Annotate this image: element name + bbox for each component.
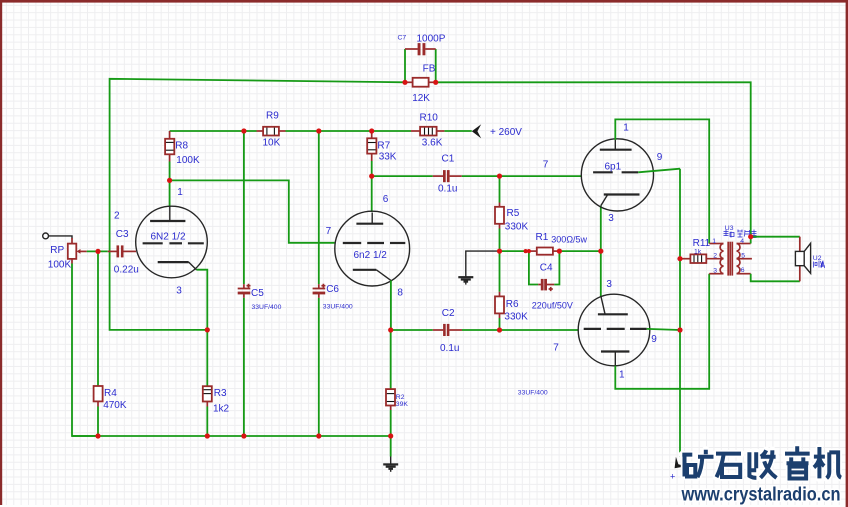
svg-text:C6: C6	[326, 284, 339, 295]
capacitor C4 loop wires	[529, 251, 560, 284]
junction R5/R6/ground node	[497, 249, 502, 254]
resistor R10 (3.6K)	[411, 127, 444, 136]
svg-text:6: 6	[383, 194, 389, 205]
resistor R9 (10K)	[257, 127, 286, 136]
capacitor C5 (33UF/400 electrolytic)	[238, 284, 251, 298]
svg-text:7: 7	[326, 226, 332, 237]
resistor R11 (1k)	[680, 254, 724, 263]
wire: R7 bottom to plate node	[371, 161, 373, 176]
wire: C5 column	[243, 131, 245, 436]
input terminal	[43, 233, 72, 239]
wire: node to C1	[372, 175, 433, 177]
svg-text:1: 1	[623, 122, 629, 133]
tube V2 6n2 1/2 (second triode, cathodyne)	[335, 211, 410, 286]
svg-text:0.1u: 0.1u	[440, 343, 459, 354]
wire: V2 cathode down to C2 node	[390, 280, 392, 330]
transformer U3 primary coil	[709, 244, 723, 274]
transformer U3 core	[728, 242, 732, 276]
junction screen/R11	[677, 256, 682, 261]
speaker U2	[795, 243, 810, 273]
tube V1 6N2 1/2 (first triode)	[136, 206, 208, 278]
svg-text:9: 9	[657, 152, 663, 163]
svg-text:R6: R6	[506, 299, 519, 310]
svg-text:33UF/400: 33UF/400	[252, 304, 282, 311]
svg-text:8: 8	[397, 287, 403, 298]
svg-text:39K: 39K	[396, 401, 409, 408]
resistor FB (12K)	[405, 78, 436, 87]
junction FB left	[402, 80, 407, 85]
junction rail/C6	[316, 433, 321, 438]
junction cathode column	[598, 249, 603, 254]
wire: R2 bottom to ground rail	[390, 410, 392, 436]
junction FB right	[433, 80, 438, 85]
svg-text:C3: C3	[116, 229, 129, 240]
svg-text:3: 3	[608, 213, 614, 224]
svg-text:+ 260V: + 260V	[490, 127, 522, 138]
svg-text:3: 3	[713, 267, 717, 274]
wire: V4 anode to transformer pin 3	[615, 274, 709, 389]
svg-text:C2: C2	[442, 308, 455, 319]
wire: junction to speaker top	[751, 236, 800, 238]
wire: pin 6 to speaker bottom	[751, 274, 800, 282]
svg-text:100K: 100K	[48, 259, 72, 270]
svg-text:1: 1	[177, 187, 183, 198]
svg-text:300Ω/5w: 300Ω/5w	[551, 235, 587, 245]
wire: node to V2 grid (pin 7)	[170, 180, 335, 242]
svg-text:C5: C5	[251, 288, 264, 299]
tube V3 6p1 (upper output)	[581, 139, 653, 211]
svg-text:U2: U2	[813, 255, 822, 262]
capacitor C3 (0.22u)	[108, 245, 136, 257]
junction rail/R7	[369, 128, 374, 133]
svg-text:33UF/400: 33UF/400	[518, 390, 548, 397]
junction R8/plate node	[167, 178, 172, 183]
capacitor C7 loop wires	[405, 49, 436, 82]
svg-text:R2: R2	[396, 394, 405, 401]
wire: C1 to V3 grid pin 7	[462, 175, 582, 177]
wire: node down to V2 pin 6	[371, 176, 373, 212]
resistor R2 (39K)	[386, 389, 395, 410]
svg-text:0.22u: 0.22u	[114, 264, 139, 275]
svg-text:7: 7	[553, 343, 559, 354]
svg-text:R3: R3	[214, 388, 227, 399]
junction R7/V2 plate/C1	[369, 174, 374, 179]
tube V4 6p1 (lower output)	[578, 294, 650, 366]
svg-text:C4: C4	[540, 262, 553, 273]
svg-text:C7: C7	[398, 35, 407, 42]
capacitor C2 (0.1u)	[391, 324, 462, 336]
wire: ground rail	[72, 435, 391, 437]
svg-text:330K: 330K	[505, 221, 529, 232]
junction rail/C6	[316, 128, 321, 133]
capacitor C4 (220uf/50V)	[538, 279, 554, 291]
wire: FB node to output transformer secondary (top right rail)	[436, 82, 751, 236]
svg-text:5: 5	[741, 253, 745, 260]
wire: V1 cathode to cathode node	[196, 270, 207, 330]
label speaker (CJK)	[814, 261, 826, 269]
speaker U2 leads	[799, 237, 801, 282]
svg-text:FB: FB	[423, 64, 436, 75]
watermark big CJK text	[682, 446, 841, 478]
svg-text:R9: R9	[266, 110, 279, 121]
resistor R4 (470K)	[94, 386, 103, 407]
svg-text:R4: R4	[104, 388, 117, 399]
junction R1 left b	[527, 249, 531, 253]
wire: bias node to R1	[500, 250, 530, 252]
power port +260V arrow	[472, 124, 481, 138]
svg-text:0.1u: 0.1u	[438, 183, 457, 194]
transformer U3 secondary coil	[737, 244, 752, 274]
power port arrow (screen supply)	[675, 457, 686, 469]
potentiometer RP (100K)	[68, 238, 87, 264]
ground symbol (main)	[383, 436, 398, 471]
resistor R1 (300R/5w)	[529, 248, 559, 255]
wire: V3 anode pin1 to transformer pin 1	[615, 119, 709, 243]
junction rail/R2	[388, 433, 393, 438]
svg-text:6N2 1/2: 6N2 1/2	[151, 232, 186, 243]
resistor R6 (330K)	[495, 251, 504, 330]
wire: R8 bottom to grid node	[169, 162, 171, 181]
junction screen/V4 pin9	[677, 327, 682, 332]
svg-text:100K: 100K	[176, 155, 200, 166]
svg-text:3: 3	[606, 279, 612, 290]
junction rail/R3	[205, 433, 210, 438]
svg-text:6n2 1/2: 6n2 1/2	[354, 250, 388, 261]
junction wiper node	[95, 249, 100, 254]
resistor R8 (100K)	[165, 131, 174, 162]
junction V2 cathode/C2/R2	[388, 327, 393, 332]
svg-text:6p1: 6p1	[605, 161, 622, 172]
capacitor C1 (0.1u)	[433, 170, 462, 182]
svg-text:220uf/50V: 220uf/50V	[532, 300, 573, 310]
wire: cathode node down to R3	[206, 330, 208, 386]
capacitor C6 (33UF/400 electrolytic)	[313, 284, 326, 298]
svg-text:1k: 1k	[694, 248, 702, 255]
svg-text:R10: R10	[420, 113, 439, 124]
junction V1 cathode node	[205, 327, 210, 332]
svg-text:2: 2	[114, 210, 120, 221]
svg-text:33K: 33K	[379, 151, 397, 162]
svg-text:1k2: 1k2	[213, 404, 230, 415]
wire: wiper node down to R4	[97, 251, 99, 386]
junction rail/R4	[95, 433, 100, 438]
svg-text:RP: RP	[50, 245, 64, 256]
wire: RP bottom to ground rail	[72, 264, 98, 437]
junction rail/C5	[241, 433, 246, 438]
wire: V3 screen pin 9 to screen column	[638, 169, 680, 173]
svg-text:12K: 12K	[412, 93, 430, 104]
wire: screen grid column	[679, 169, 681, 457]
wire: V4 screen pin 9 to screen column	[647, 329, 680, 330]
label output transformer (CJK)	[724, 230, 757, 239]
svg-text:6: 6	[741, 267, 745, 274]
wire: pin 4 to junction	[750, 237, 752, 244]
junction R1 right	[557, 249, 562, 254]
wire: B+ rail	[170, 130, 472, 132]
svg-text:3.6K: 3.6K	[422, 138, 443, 149]
svg-text:R1: R1	[536, 232, 549, 243]
wire: cathode column (V3 cathode to V4 cathode)	[600, 206, 602, 297]
wire: C6 column	[318, 131, 320, 436]
wire: R1 right to cathode column	[559, 250, 600, 252]
svg-text:330K: 330K	[504, 312, 528, 323]
junction rail/C5	[241, 128, 246, 133]
svg-text:33UF/400: 33UF/400	[323, 304, 353, 311]
svg-text:R8: R8	[175, 141, 188, 152]
svg-text:+: +	[670, 472, 675, 482]
svg-text:www.crystalradio.cn: www.crystalradio.cn	[681, 484, 841, 506]
svg-text:4: 4	[740, 238, 744, 245]
wire: feedback top rail from FB node to first stage cathode column	[110, 79, 405, 330]
resistor R3 (1k2)	[203, 386, 212, 406]
svg-text:3: 3	[176, 286, 182, 297]
resistor R7 (33K)	[367, 131, 376, 161]
junction C2 wire / R6	[497, 327, 502, 332]
wire: node down to R2	[390, 330, 392, 389]
junction C1 wire / R5	[497, 174, 502, 179]
svg-text:7: 7	[543, 159, 549, 170]
junction R1 left a	[524, 249, 528, 253]
wire: wiper to junction	[87, 250, 108, 252]
wire: R4 bottom to ground rail	[97, 407, 99, 437]
svg-text:470K: 470K	[103, 400, 127, 411]
svg-text:1: 1	[619, 369, 625, 380]
svg-text:10K: 10K	[263, 138, 281, 149]
svg-text:R5: R5	[507, 208, 520, 219]
wire: C2 to V4 grid	[462, 329, 579, 331]
junction transformer pin4 / feedback	[748, 234, 753, 239]
ground symbol (bias network)	[458, 251, 499, 283]
svg-text:C1: C1	[442, 154, 455, 165]
wire: R3 bottom to ground rail	[206, 407, 208, 437]
svg-text:1: 1	[712, 238, 716, 245]
svg-text:9: 9	[651, 334, 657, 345]
svg-text:2: 2	[713, 253, 717, 260]
capacitor C7	[405, 43, 436, 55]
resistor R5 (330K)	[495, 176, 504, 251]
svg-text:R7: R7	[377, 140, 390, 151]
svg-text:1000P: 1000P	[417, 34, 446, 45]
wire: node to V1 pin1	[169, 180, 171, 206]
